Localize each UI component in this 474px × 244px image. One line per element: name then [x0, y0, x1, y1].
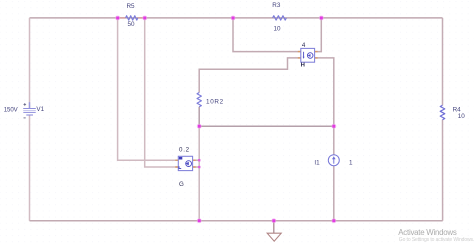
svg-text:H: H [301, 63, 305, 69]
wire from switch H bottom-left pin to resistor R2 top [199, 58, 301, 93]
junction node bottom I1 [331, 218, 336, 223]
resistor R4 [440, 105, 445, 119]
wire from top bus node down to switch H top-right pin [315, 18, 322, 52]
resistor R3 [273, 16, 287, 20]
junction node R5 left [115, 15, 120, 20]
wire top bus [30, 17, 443, 19]
svg-text:150V: 150V [4, 108, 18, 114]
wire ground stub [273, 221, 275, 233]
wire mid bus R2 bottom to I1 top [199, 107, 334, 126]
junction node switch G right bottom [198, 166, 200, 168]
wire from switch H bottom-right pin down to mid node [315, 58, 334, 126]
svg-text:I1: I1 [314, 160, 320, 167]
svg-text:V1: V1 [36, 106, 44, 113]
wire from top bus node down to switch H top-left pin [233, 18, 301, 52]
resistor R5 [126, 16, 138, 20]
svg-text:1: 1 [349, 160, 353, 167]
junction node bottom left [197, 218, 202, 223]
wire switch G right pins to vertical [193, 160, 200, 167]
switch U-G pin stubs [175, 160, 195, 167]
wire I1 branch vertical [333, 126, 335, 221]
svg-text:R3: R3 [272, 2, 281, 9]
switch U-G body [178, 156, 192, 170]
switch U-H pin stubs [298, 52, 318, 58]
wire from node at R5 left down to switch G top-left pin [118, 18, 179, 160]
junction node R5 right [142, 15, 147, 20]
svg-text:Go to Settings to activate Win: Go to Settings to activate Windows. [399, 237, 474, 243]
svg-text:G: G [179, 181, 184, 188]
svg-text:0.2: 0.2 [179, 147, 190, 154]
wire bottom bus [30, 220, 443, 222]
svg-text:10: 10 [458, 113, 466, 120]
svg-text:50: 50 [127, 21, 135, 28]
wire from node at R5 right down to switch G bottom-left pin [145, 18, 179, 167]
wire left bus [29, 18, 31, 221]
resistor R2 [197, 93, 201, 107]
svg-text:4: 4 [302, 42, 306, 49]
junction node top H branch [231, 15, 236, 20]
junction node mid right [331, 124, 336, 129]
junction node mid left [197, 124, 202, 129]
wire R2 node down to bottom bus [198, 126, 200, 221]
svg-text:10R2: 10R2 [206, 99, 224, 106]
ground [267, 233, 281, 241]
voltage source V1 [23, 102, 36, 118]
junction node top right branch [319, 15, 324, 20]
svg-text:Activate Windows: Activate Windows [398, 228, 457, 237]
junction node switch G right top [198, 159, 200, 161]
switch U-H body [301, 48, 315, 62]
current source I1 [328, 155, 339, 166]
resistor R5 leads [118, 17, 145, 19]
junction node ground [271, 218, 276, 223]
svg-text:R5: R5 [126, 3, 135, 10]
wire right bus [442, 18, 444, 221]
svg-text:10: 10 [273, 25, 281, 32]
